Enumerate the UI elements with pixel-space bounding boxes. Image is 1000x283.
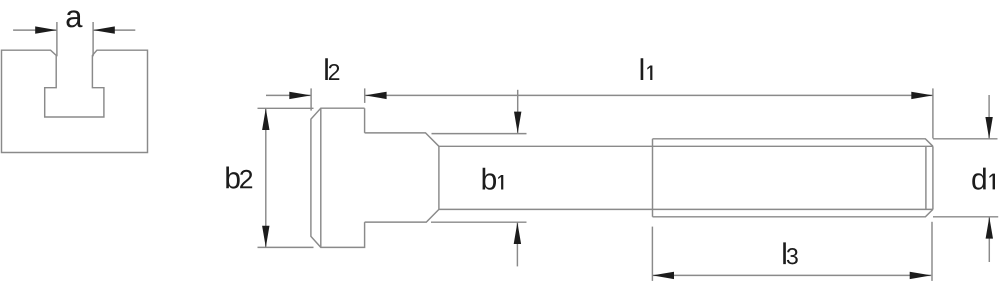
dimension l1 right extension line	[932, 88, 934, 138]
bolt neck top and taper to shank	[365, 133, 439, 146]
dimension l3 right extension line	[931, 222, 933, 281]
dimension a left leader line	[13, 29, 57, 31]
dimension b1 top leader line	[517, 90, 519, 133]
T-slot block outline	[2, 50, 148, 152]
dimension a right extension line	[92, 22, 94, 56]
dimension l1 line	[365, 94, 933, 96]
dimension b1 bottom arrowhead	[514, 222, 521, 244]
label l2	[325, 58, 339, 80]
dimension l2 left leader line	[266, 94, 311, 96]
label l3	[783, 242, 798, 264]
dimension l2 right / l1 left arrowhead	[365, 92, 387, 99]
dimension d1 top arrowhead	[985, 117, 992, 139]
label b1	[483, 168, 504, 190]
dimension b1 bottom leader line	[516, 222, 518, 266]
dimension d1 bottom extension line	[933, 216, 998, 218]
dimension a left arrowhead	[35, 26, 57, 33]
dimension d1 bottom leader line	[988, 217, 990, 262]
dimension a right leader line	[93, 29, 135, 31]
dimension l3 left extension line	[651, 227, 653, 281]
dimension l3 line	[652, 274, 931, 276]
dimension a right arrowhead	[93, 26, 115, 33]
bolt head chamfer tangent line	[320, 108, 322, 247]
label d1	[972, 168, 995, 190]
thread major bottom line with end chamfer	[653, 209, 933, 216]
dimension b2 bottom extension line	[258, 246, 314, 248]
dimension b1 top arrowhead	[514, 112, 521, 134]
dimension l3 left arrowhead	[652, 272, 674, 279]
thread end chamfer tangent line	[925, 146, 927, 209]
label b2	[226, 167, 252, 189]
taper junction vertical line	[438, 146, 440, 209]
dimension l2 right / l1 left extension line	[364, 88, 366, 103]
dimension b2 top extension line	[258, 107, 314, 109]
dimension a left extension line	[56, 22, 58, 56]
dimension d1 top leader line	[988, 95, 990, 139]
dimension l2 left arrowhead	[289, 92, 311, 99]
thread major top line with end chamfer	[653, 139, 933, 147]
shank top line (thread minor continues to end face)	[439, 145, 933, 147]
bolt head outline	[311, 108, 365, 247]
bolt end face	[932, 146, 934, 209]
dimension l1 right arrowhead	[911, 92, 933, 99]
thread start vertical line	[652, 139, 654, 217]
dimension b1 top extension line	[432, 133, 527, 135]
label a	[67, 10, 83, 27]
shank bottom line (thread minor continues to end face)	[439, 208, 933, 210]
bolt neck bottom and taper to shank	[365, 209, 439, 222]
label l1	[641, 58, 653, 80]
dimension b1 bottom extension line	[431, 221, 527, 223]
dimension l3 right arrowhead	[910, 272, 932, 279]
dimension b2 bottom arrowhead	[262, 226, 269, 248]
dimension b2 top arrowhead	[262, 108, 269, 130]
dimension b2 line	[265, 108, 267, 247]
dimension d1 top extension line	[933, 138, 998, 140]
dimension l2 left extension line	[310, 88, 312, 110]
dimension d1 bottom arrowhead	[986, 217, 993, 239]
